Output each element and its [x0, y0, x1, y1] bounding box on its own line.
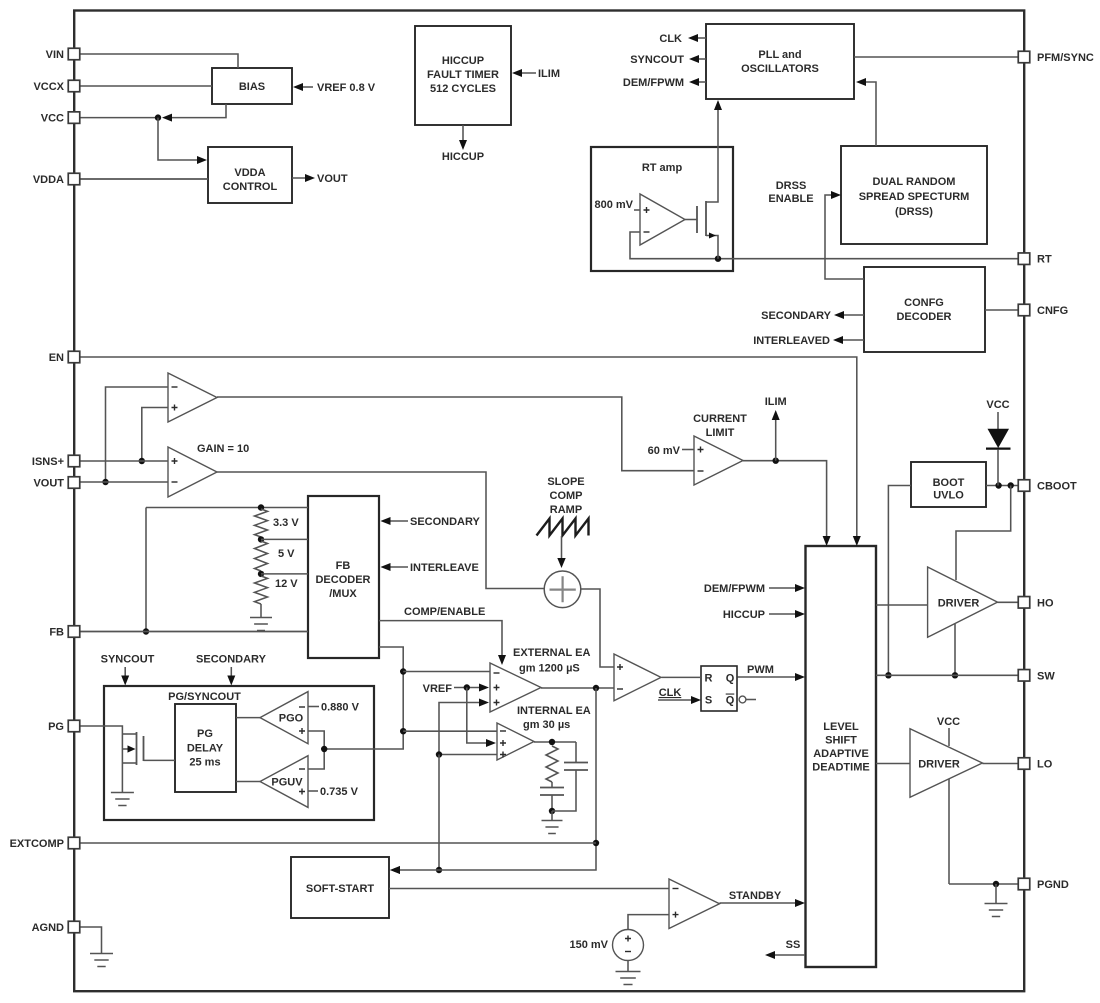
- svg-text:PWM: PWM: [747, 664, 774, 676]
- svg-text:ISNS+: ISNS+: [32, 456, 64, 468]
- svg-text:ENABLE: ENABLE: [768, 193, 813, 205]
- svg-text:COMP: COMP: [550, 490, 583, 502]
- svg-text:SLOPE: SLOPE: [547, 476, 584, 488]
- svg-text:RT amp: RT amp: [642, 162, 683, 174]
- svg-text:S: S: [705, 695, 712, 707]
- svg-text:VDDA: VDDA: [234, 167, 265, 179]
- svg-text:INTERLEAVED: INTERLEAVED: [753, 335, 830, 347]
- svg-text:DEADTIME: DEADTIME: [812, 762, 869, 774]
- svg-text:OSCILLATORS: OSCILLATORS: [741, 63, 819, 75]
- svg-text:VREF 0.8 V: VREF 0.8 V: [317, 82, 376, 94]
- svg-text:SECONDARY: SECONDARY: [761, 310, 832, 322]
- svg-text:CBOOT: CBOOT: [1037, 481, 1077, 493]
- svg-text:RT: RT: [1037, 254, 1052, 266]
- svg-text:Q: Q: [726, 673, 735, 685]
- svg-text:GAIN = 10: GAIN = 10: [197, 443, 249, 455]
- svg-text:SOFT-START: SOFT-START: [306, 883, 375, 895]
- svg-text:EXTERNAL EA: EXTERNAL EA: [513, 647, 590, 659]
- svg-text:DRIVER: DRIVER: [938, 598, 980, 610]
- svg-text:SECONDARY: SECONDARY: [196, 654, 267, 666]
- svg-text:Q: Q: [726, 695, 735, 707]
- svg-text:AGND: AGND: [32, 922, 64, 934]
- svg-text:RAMP: RAMP: [550, 504, 582, 516]
- svg-text:12 V: 12 V: [275, 578, 298, 590]
- svg-text:INTERNAL EA: INTERNAL EA: [517, 705, 591, 717]
- svg-text:LIMIT: LIMIT: [706, 427, 735, 439]
- svg-text:CNFG: CNFG: [1037, 305, 1068, 317]
- svg-text:DEM/FPWM: DEM/FPWM: [623, 77, 684, 89]
- svg-text:BIAS: BIAS: [239, 81, 265, 93]
- svg-text:SYNCOUT: SYNCOUT: [630, 54, 684, 66]
- svg-text:PG: PG: [197, 728, 213, 740]
- svg-text:PGUV: PGUV: [271, 777, 303, 789]
- svg-text:DECODER: DECODER: [315, 574, 370, 586]
- svg-text:DECODER: DECODER: [896, 311, 951, 323]
- svg-text:VDDA: VDDA: [33, 174, 64, 186]
- svg-text:VCC: VCC: [986, 399, 1009, 411]
- svg-text:DUAL RANDOM: DUAL RANDOM: [873, 176, 956, 188]
- svg-text:VCC: VCC: [937, 716, 960, 728]
- svg-text:DRIVER: DRIVER: [918, 759, 960, 771]
- svg-text:0.735 V: 0.735 V: [320, 786, 359, 798]
- svg-text:HO: HO: [1037, 597, 1054, 609]
- svg-text:BOOT: BOOT: [933, 477, 965, 489]
- svg-text:PLL and: PLL and: [758, 49, 801, 61]
- svg-text:CLK: CLK: [659, 687, 682, 699]
- svg-text:3.3 V: 3.3 V: [273, 517, 299, 529]
- svg-text:COMP/ENABLE: COMP/ENABLE: [404, 606, 485, 618]
- svg-text:SYNCOUT: SYNCOUT: [101, 654, 155, 666]
- svg-text:SPREAD SPECTURM: SPREAD SPECTURM: [859, 191, 970, 203]
- svg-text:LEVEL: LEVEL: [823, 721, 859, 733]
- svg-text:EN: EN: [49, 352, 64, 364]
- svg-text:HICCUP: HICCUP: [442, 151, 484, 163]
- svg-text:ADAPTIVE: ADAPTIVE: [813, 748, 869, 760]
- svg-text:PGO: PGO: [279, 713, 304, 725]
- svg-text:UVLO: UVLO: [933, 490, 964, 502]
- svg-text:VOUT: VOUT: [317, 173, 348, 185]
- svg-text:DEM/FPWM: DEM/FPWM: [704, 583, 765, 595]
- svg-text:0.880 V: 0.880 V: [321, 702, 360, 714]
- svg-text:FB: FB: [336, 560, 351, 572]
- svg-text:FAULT TIMER: FAULT TIMER: [427, 69, 499, 81]
- svg-text:5 V: 5 V: [278, 548, 295, 560]
- svg-text:PG/SYNCOUT: PG/SYNCOUT: [168, 691, 241, 703]
- svg-text:EXTCOMP: EXTCOMP: [10, 838, 64, 850]
- svg-text:HICCUP: HICCUP: [723, 609, 765, 621]
- svg-text:VREF: VREF: [423, 683, 453, 695]
- svg-text:R: R: [705, 673, 713, 685]
- svg-text:SS: SS: [786, 939, 801, 951]
- svg-text:HICCUP: HICCUP: [442, 55, 484, 67]
- svg-text:(DRSS): (DRSS): [895, 206, 933, 218]
- svg-text:FB: FB: [49, 627, 64, 639]
- svg-text:ILIM: ILIM: [538, 68, 560, 80]
- svg-text:SW: SW: [1037, 670, 1055, 682]
- svg-text:CLK: CLK: [659, 33, 682, 45]
- svg-text:PGND: PGND: [1037, 879, 1069, 891]
- svg-text:gm 1200 µS: gm 1200 µS: [519, 663, 580, 675]
- svg-text:PG: PG: [48, 721, 64, 733]
- svg-text:STANDBY: STANDBY: [729, 890, 782, 902]
- svg-text:INTERLEAVE: INTERLEAVE: [410, 562, 479, 574]
- svg-text:VCC: VCC: [41, 113, 64, 125]
- svg-text:LO: LO: [1037, 759, 1053, 771]
- svg-text:SHIFT: SHIFT: [825, 735, 857, 747]
- svg-text:CONTROL: CONTROL: [223, 181, 278, 193]
- svg-text:SECONDARY: SECONDARY: [410, 516, 481, 528]
- svg-text:60 mV: 60 mV: [648, 445, 681, 457]
- svg-text:VOUT: VOUT: [33, 478, 64, 490]
- svg-text:DRSS: DRSS: [776, 180, 807, 192]
- svg-text:PFM/SYNC: PFM/SYNC: [1037, 52, 1094, 64]
- svg-text:VIN: VIN: [46, 49, 64, 61]
- svg-text:150 mV: 150 mV: [569, 939, 608, 951]
- svg-text:800 mV: 800 mV: [594, 199, 633, 211]
- svg-text:/MUX: /MUX: [329, 588, 357, 600]
- svg-text:CONFG: CONFG: [904, 297, 944, 309]
- svg-text:25 ms: 25 ms: [189, 757, 220, 769]
- svg-text:CURRENT: CURRENT: [693, 413, 747, 425]
- svg-text:VCCX: VCCX: [33, 81, 64, 93]
- svg-text:DELAY: DELAY: [187, 743, 224, 755]
- svg-text:gm 30 µs: gm 30 µs: [523, 719, 570, 731]
- svg-text:512 CYCLES: 512 CYCLES: [430, 83, 496, 95]
- svg-text:ILIM: ILIM: [765, 396, 787, 408]
